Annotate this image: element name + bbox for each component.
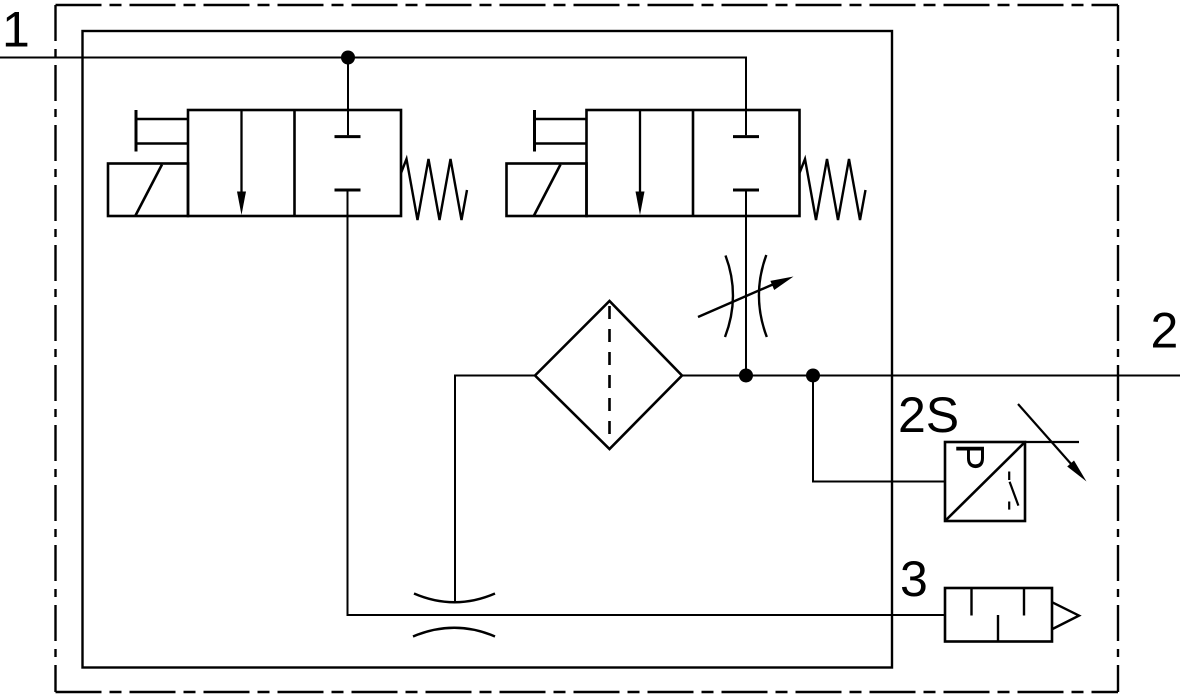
valve V2 blocked port (bottom)	[733, 189, 759, 192]
valve V2 body	[587, 110, 800, 216]
valve V2 flow-path arrow	[639, 111, 641, 196]
valve V1 blocked port (top)	[335, 135, 361, 138]
return spring V2	[800, 159, 866, 220]
svg-text:P: P	[948, 444, 992, 471]
svg-text:2: 2	[1151, 302, 1179, 358]
valve V1 body	[188, 110, 401, 216]
wire: valve V1 output to exhaust line 3	[348, 190, 946, 615]
sensor switch contact	[1009, 472, 1018, 510]
wire: port 2 output line	[746, 375, 1180, 377]
valve V2 chamber divider	[692, 110, 695, 216]
valve V2 blocked port (top)	[733, 135, 759, 138]
pressure sensor 2S (adjustable pressure switch)	[945, 404, 1087, 521]
valve V1 chamber divider	[293, 110, 296, 216]
wire: filter outlet to node 2	[682, 375, 746, 377]
return spring V1	[401, 159, 467, 220]
sensor signal line	[1025, 441, 1079, 443]
valve V1 blocked port (bottom)	[335, 189, 361, 192]
sensor adjustment arrow	[1018, 404, 1072, 465]
solenoid coil V2	[507, 164, 587, 217]
junction: node 2 (throttle output)	[739, 369, 753, 383]
pilot bracket V1	[135, 110, 138, 152]
pilot bracket V2	[533, 110, 536, 152]
svg-text:3: 3	[900, 551, 928, 607]
valve V1 flow-path arrow	[240, 111, 242, 196]
wire: supply drop to valve V1	[347, 58, 349, 136]
wire: branch to pressure sensor 2S	[813, 376, 945, 482]
nozzle (fixed restriction) on exhaust line	[413, 594, 495, 637]
wire: filter inlet from exhaust nozzle	[455, 376, 535, 602]
inner manifold box	[83, 31, 893, 668]
svg-text:2S: 2S	[898, 387, 959, 443]
wire: port 1 supply line	[0, 58, 746, 136]
valve V2: 3/2-way solenoid valve, normally closed, spring return	[507, 110, 866, 220]
silencer on port 3	[945, 588, 1079, 642]
wire: valve V2 output down to node 2	[745, 190, 747, 376]
junction: supply tap to valve V1	[341, 51, 355, 65]
valve V1: 3/2-way solenoid valve, normally closed, spring return	[108, 110, 467, 220]
solenoid coil V1	[108, 164, 188, 217]
junction: tap to pressure sensor 2S	[806, 369, 820, 383]
svg-text:1: 1	[2, 1, 30, 57]
filter F1	[535, 301, 682, 449]
throttle valve (variable restrictor) on V2 output	[698, 255, 794, 337]
